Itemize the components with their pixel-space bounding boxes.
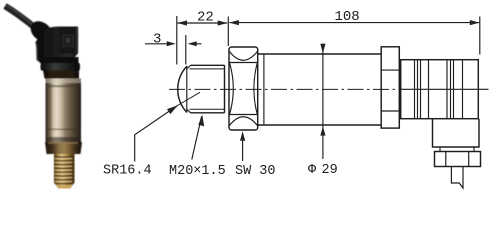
connector ribs: [415, 60, 429, 119]
arrow 3 right: [188, 41, 197, 46]
pressure port: spherical tip arc SR16.4: [178, 66, 187, 112]
cable stub with broken end: [451, 166, 463, 188]
SW30 leader line: [242, 133, 244, 161]
svg-text:3: 3: [153, 31, 161, 47]
connector left edge sheen: [36, 44, 38, 61]
arrow phi29 top: [320, 44, 325, 53]
main body outline: [258, 54, 382, 125]
gland nut face lines: [446, 152, 469, 167]
svg-text:SW 30: SW 30: [235, 164, 276, 179]
lower housing rect: [433, 119, 480, 147]
cable gland nut: [435, 152, 481, 167]
extension line for 3: [185, 35, 187, 65]
arrow 108 right: [470, 20, 480, 25]
pressure port: left face line: [186, 66, 188, 113]
cable: [5, 6, 36, 29]
svg-text:M20×1.5: M20×1.5: [169, 164, 226, 179]
neck below housing: [440, 147, 474, 152]
arrow SR leader: [167, 105, 178, 114]
connector cap face: [60, 27, 79, 54]
thread M20 outline: [191, 65, 225, 113]
connector body (right-angle DIN plug): [36, 27, 79, 62]
end ring: [381, 47, 399, 128]
hex face edges: [229, 63, 258, 115]
collar lower ring: [43, 71, 79, 79]
arrowheads: [167, 20, 480, 141]
connector lower flange: [40, 57, 79, 63]
arrow phi29 bottom: [320, 126, 325, 135]
phi29 dimension line: [322, 44, 324, 160]
hex flats: [45, 142, 82, 154]
dimension 22 line: [178, 22, 228, 24]
svg-text:Φ: Φ: [308, 163, 317, 178]
arrow 22 left: [177, 20, 187, 25]
svg-text:22: 22: [197, 9, 214, 25]
connector block outline: [401, 60, 479, 119]
hex chamfer arcs bottom face: [229, 117, 257, 126]
arrow M20 leader: [198, 115, 204, 126]
hex chamfer arc mid-left: [230, 63, 234, 114]
dimension 3 lines: [145, 43, 202, 45]
thread chamfer corners: [187, 65, 191, 113]
svg-text:108: 108: [335, 9, 360, 25]
connector screw recess: [63, 34, 75, 47]
arrow 3 left: [167, 41, 176, 46]
dimension 108 line: [229, 22, 479, 24]
axis center line: [169, 88, 399, 90]
SR16.4 leader line: [135, 106, 178, 162]
arrow SW30: [240, 131, 245, 141]
thread ridges: [54, 156, 75, 184]
arrow 108 left: [229, 20, 239, 25]
axis right stub: [478, 88, 488, 90]
svg-text:29: 29: [322, 163, 338, 178]
hex nut SW30 outline: [229, 47, 258, 130]
thread root lines: [190, 69, 225, 109]
body left step line: [263, 54, 265, 125]
connector mid line: [401, 88, 479, 90]
arrow 22 right: [218, 20, 228, 25]
M20 leader line: [192, 116, 202, 159]
threaded stud: [54, 154, 75, 188]
locking collar: [41, 63, 81, 71]
ring inner lines: [381, 70, 399, 111]
svg-text:SR16.4: SR16.4: [103, 163, 152, 178]
SR leader continuation to sphere centre: [177, 92, 201, 106]
sensor body cylinder: [46, 79, 82, 143]
cable gland bushing: [27, 17, 57, 46]
extension line left of 22: [176, 16, 178, 65]
extension line right of 108: [479, 17, 481, 55]
hex chamfer arc mid-right: [254, 63, 257, 114]
thread tip chamfer: [54, 183, 58, 188]
hex chamfer arcs top face: [229, 52, 257, 61]
extension line between 22 and 108: [227, 17, 229, 47]
